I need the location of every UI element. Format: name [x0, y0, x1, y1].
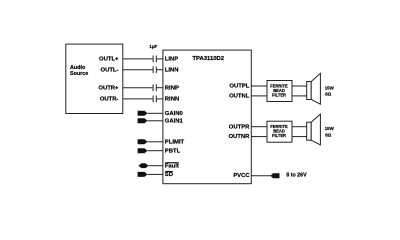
svg-text:OUTR-: OUTR-: [100, 97, 119, 103]
svg-text:Source: Source: [70, 71, 88, 77]
input terminal arrow SD: [138, 172, 148, 177]
wire GAIN1: [148, 120, 163, 122]
speaker LS1 driver rect: [307, 82, 312, 100]
svg-text:GAIN0: GAIN0: [165, 111, 184, 117]
wire OUTL- to C2: [123, 69, 153, 71]
wire OUTL+ to C1: [123, 58, 153, 60]
svg-text:OUTPL: OUTPL: [229, 84, 249, 90]
svg-text:OUTL-: OUTL-: [101, 67, 119, 73]
wire C1 to LINP: [157, 58, 163, 60]
supply terminal arrow PVCC: [271, 173, 280, 178]
capacitor C2: [152, 66, 154, 73]
capacitor C3: [152, 84, 154, 91]
svg-text:1µF: 1µF: [149, 44, 157, 49]
svg-text:LINP: LINP: [165, 57, 178, 63]
wire OUTR+ to C3: [123, 87, 153, 89]
wire C2 to LINN: [157, 69, 163, 71]
audio source box: [66, 44, 123, 113]
wire PVCC to supply arrow: [251, 175, 270, 177]
svg-text:RINP: RINP: [165, 85, 179, 91]
wire filter 1 to speaker 1 (bottom): [292, 95, 307, 97]
svg-text:FILTER: FILTER: [272, 133, 286, 138]
svg-text:OUTNR: OUTNR: [228, 134, 250, 140]
wire PLIMIT: [148, 141, 163, 143]
svg-text:8 to 26V: 8 to 26V: [286, 173, 307, 179]
speaker LS2 cone: [311, 114, 320, 145]
speaker LS1 cone: [311, 73, 320, 104]
input terminal arrow PLIMIT: [138, 139, 148, 144]
svg-text:TPA3110D2: TPA3110D2: [192, 56, 224, 62]
speaker LS2 driver rect: [307, 122, 312, 140]
svg-text:OUTNL: OUTNL: [229, 94, 250, 100]
svg-text:PBTL: PBTL: [165, 148, 181, 154]
wire filter 1 to speaker 1 (top): [292, 85, 307, 87]
wire filter 2 to speaker 2 (bottom): [292, 136, 307, 138]
wire PBTL: [148, 150, 163, 152]
wire filter 2 to speaker 2 (top): [292, 126, 307, 128]
svg-text:8Ω: 8Ω: [325, 132, 331, 137]
capacitor C1 1uF: [152, 56, 154, 63]
svg-text:SD: SD: [165, 172, 173, 178]
wire OUTPL to filter 1: [251, 85, 267, 87]
input terminal arrow PBTL: [138, 148, 148, 153]
input terminal arrow GAIN0: [138, 111, 148, 116]
bidirectional terminal arrow Fault: [138, 163, 148, 168]
wire C4 to RINN: [157, 98, 163, 100]
svg-text:15W: 15W: [325, 126, 335, 131]
svg-text:15W: 15W: [325, 85, 335, 90]
capacitor C4: [152, 96, 154, 103]
ferrite bead filter 2 box: [267, 121, 292, 142]
svg-text:OUTPR: OUTPR: [229, 124, 250, 130]
svg-text:FILTER: FILTER: [272, 92, 286, 97]
IC U1 TPA3110D2 box: [163, 50, 251, 184]
svg-text:OUTR+: OUTR+: [98, 85, 119, 91]
svg-text:GAIN1: GAIN1: [165, 118, 184, 124]
wire Fault: [149, 165, 163, 167]
input terminal arrow GAIN1: [138, 118, 148, 123]
svg-text:PVCC: PVCC: [233, 173, 250, 179]
svg-text:LINN: LINN: [165, 67, 179, 73]
wire GAIN0: [148, 112, 163, 114]
svg-text:Fault: Fault: [165, 163, 179, 169]
svg-text:8Ω: 8Ω: [325, 92, 331, 97]
ferrite bead filter 1 box: [267, 81, 292, 102]
svg-text:RINN: RINN: [165, 97, 179, 103]
wire C3 to RINP: [157, 87, 163, 89]
wire OUTR- to C4: [123, 98, 153, 100]
wire OUTNL to filter 1: [251, 95, 267, 97]
wire OUTPR to filter 2: [251, 126, 267, 128]
wire SD: [148, 173, 163, 175]
svg-text:OUTL+: OUTL+: [99, 57, 119, 63]
wire OUTNR to filter 2: [251, 136, 267, 138]
svg-text:PLIMIT: PLIMIT: [165, 139, 185, 145]
